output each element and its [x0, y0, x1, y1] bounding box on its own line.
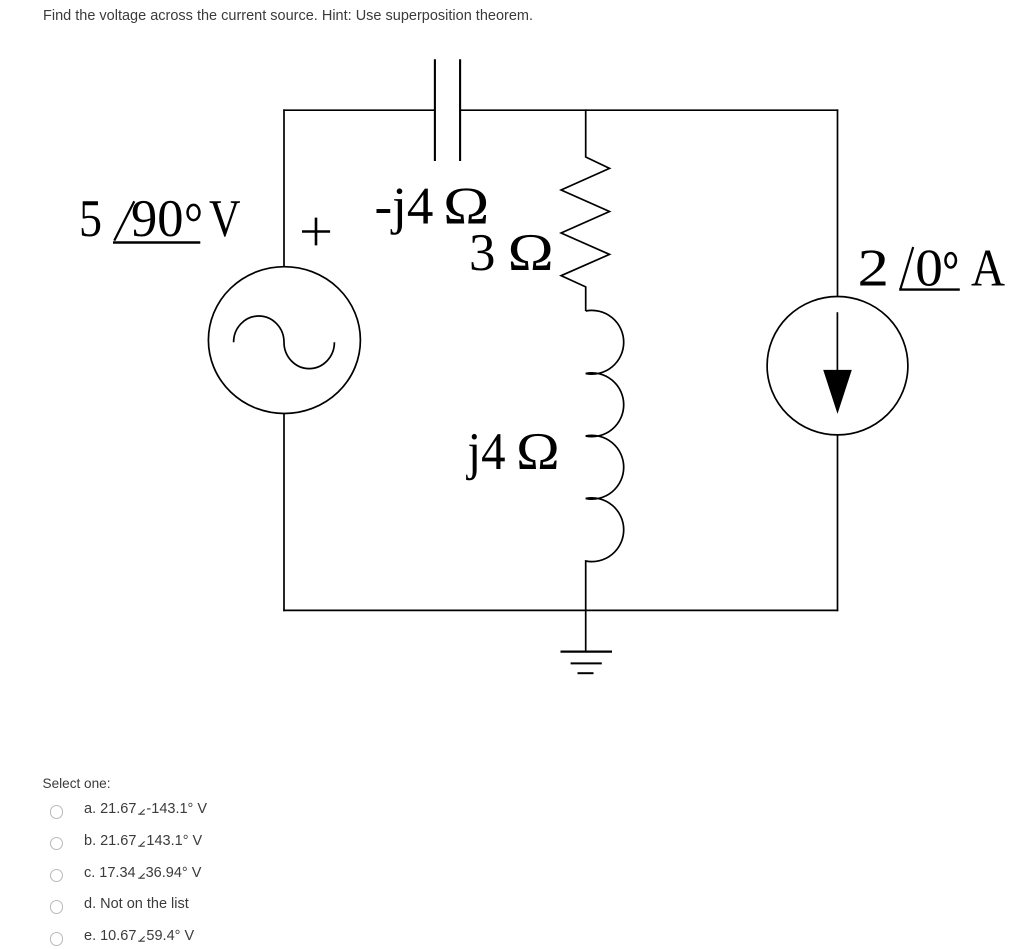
ground stub wire	[585, 610, 587, 651]
svg-text:5: 5	[79, 190, 102, 248]
label I1 angle slash	[900, 247, 913, 290]
label V1 degree o	[188, 205, 200, 220]
svg-text:Ω: Ω	[516, 423, 560, 481]
wire top-right segment	[460, 109, 838, 111]
label I1 degree o	[945, 253, 956, 267]
ground bar 2	[571, 662, 602, 664]
wire right lower	[837, 435, 839, 611]
svg-text:Ω: Ω	[508, 224, 554, 282]
label V1 angle underline	[113, 241, 200, 243]
label I1 angle underline	[899, 288, 960, 290]
wire right upper	[837, 109, 839, 296]
wire left lower	[283, 414, 285, 611]
svg-text:90: 90	[131, 190, 184, 248]
current source I1 circle	[767, 297, 908, 435]
voltage source V1 sine wave	[234, 316, 335, 369]
inductor L1 j4-ohm coils	[586, 310, 624, 610]
svg-text:V: V	[209, 190, 241, 248]
ground bar 1	[561, 650, 613, 652]
wire left upper	[283, 109, 285, 266]
capacitor C1 plate right	[459, 59, 461, 161]
current source I1 arrow shaft	[836, 312, 838, 372]
svg-text:2: 2	[858, 239, 890, 297]
wire bottom	[283, 609, 838, 611]
svg-text:3: 3	[469, 224, 496, 282]
current source I1 arrowhead	[823, 370, 852, 414]
ground bar 3	[578, 672, 594, 674]
voltage source V1 circle	[208, 267, 360, 414]
label V1 angle slash	[114, 201, 134, 240]
wire top-left segment	[283, 109, 435, 111]
svg-text:A: A	[971, 239, 1005, 297]
svg-text:-j4: -j4	[375, 178, 434, 236]
resistor R1 3-ohm zigzag	[561, 109, 609, 311]
svg-text:j4: j4	[466, 423, 506, 481]
capacitor C1 plate left	[434, 59, 436, 161]
plus polarity mark	[302, 218, 330, 246]
